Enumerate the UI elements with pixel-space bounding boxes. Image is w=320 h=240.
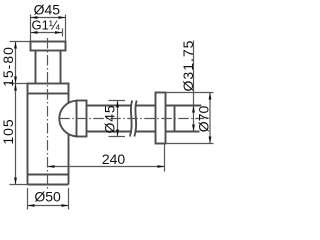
collar at cup top bbox=[28, 84, 69, 94]
dim 15-80 ext bottom bbox=[10, 83, 28, 85]
dim 15-80 ext top bbox=[10, 41, 31, 43]
arrow 240 right bbox=[158, 165, 165, 168]
arrow 15-80 bottom bbox=[14, 77, 17, 84]
svg-text:Ø45: Ø45 bbox=[34, 1, 61, 17]
dim Ø70 line bbox=[209, 93, 211, 144]
arrow Ø31.75 bottom bbox=[192, 125, 195, 132]
flange hub end bbox=[174, 106, 176, 132]
svg-text:Ø45: Ø45 bbox=[102, 105, 118, 134]
arrow Ø45 outlet top bbox=[116, 101, 119, 108]
svg-text:Ø50: Ø50 bbox=[34, 189, 61, 205]
pipe break curve right bbox=[134, 101, 136, 137]
centerline vertical bbox=[47, 38, 49, 191]
cup right side lower bbox=[68, 134, 70, 185]
dim Ø45 outlet tick top bbox=[109, 100, 126, 102]
dim 240 line bbox=[48, 166, 165, 168]
arrow 105 top bbox=[14, 84, 17, 91]
dim Ø50 line bbox=[28, 205, 69, 207]
dim Ø45 outlet tick bottom bbox=[109, 136, 126, 138]
inlet nut bbox=[31, 42, 66, 51]
dim 240 ext right bbox=[164, 145, 166, 172]
arrow Ø45 inlet right bbox=[59, 16, 66, 19]
dim G1¼ line bbox=[31, 32, 63, 34]
arrow G1¼ right bbox=[55, 31, 62, 34]
svg-text:Ø70: Ø70 bbox=[196, 106, 212, 133]
inlet pipe wall right bbox=[60, 51, 62, 84]
centerline horizontal bbox=[59, 118, 204, 120]
arrow 15-80 top bbox=[14, 42, 17, 49]
dim 105 line bbox=[15, 84, 17, 185]
dim Ø45 inlet line bbox=[31, 17, 66, 19]
dim Ø31.75 line bbox=[193, 41, 195, 132]
arrow Ø70 bottom bbox=[209, 137, 212, 144]
dim Ø45 inlet ext left bbox=[30, 15, 32, 42]
dim Ø45 outlet line bbox=[117, 101, 119, 137]
dim Ø70 ext bottom bbox=[166, 143, 214, 145]
arrow Ø50 left bbox=[28, 204, 35, 207]
cup left side bbox=[27, 94, 29, 185]
dim 105 ext bottom bbox=[10, 184, 28, 186]
svg-text:Ø31.75: Ø31.75 bbox=[180, 40, 196, 92]
arrow Ø70 top bbox=[209, 93, 212, 100]
cup cap bottom bbox=[28, 184, 69, 186]
svg-text:105: 105 bbox=[0, 118, 16, 144]
dim Ø50 ext right bbox=[68, 188, 70, 210]
pipe break curve left bbox=[130, 101, 132, 137]
inlet pipe wall left bbox=[35, 51, 37, 84]
dim 15-80 line bbox=[15, 42, 17, 84]
svg-text:240: 240 bbox=[102, 151, 126, 167]
dim Ø50 ext left bbox=[27, 188, 29, 210]
arrow G1¼ left bbox=[31, 31, 38, 34]
arrow Ø31.75 top bbox=[192, 106, 195, 113]
arrow Ø45 outlet bottom bbox=[116, 130, 119, 137]
svg-text:G1¼: G1¼ bbox=[32, 17, 60, 32]
outlet nut bbox=[77, 101, 87, 137]
outlet pipe bottom edge bbox=[87, 131, 200, 133]
svg-text:15-80: 15-80 bbox=[0, 46, 16, 87]
cup cap seam bbox=[28, 174, 69, 176]
elbow ball bbox=[59, 101, 76, 137]
dim Ø45 inlet ext right bbox=[65, 15, 67, 42]
arrow 105 bottom bbox=[14, 178, 17, 185]
dim G1¼ ext bar bbox=[62, 29, 64, 37]
wall flange plate bbox=[156, 93, 166, 144]
outlet pipe top edge bbox=[87, 105, 202, 107]
dim Ø70 ext top bbox=[166, 92, 214, 94]
arrow Ø45 inlet left bbox=[31, 16, 38, 19]
cup right side upper bbox=[68, 94, 70, 104]
arrow 240 left bbox=[48, 165, 55, 168]
arrow Ø50 right bbox=[62, 204, 69, 207]
